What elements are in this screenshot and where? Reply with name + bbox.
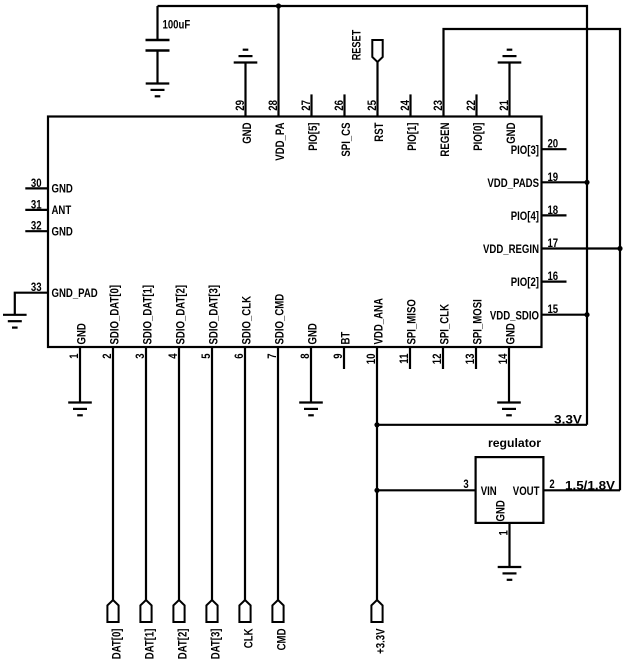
pin 32 stub xyxy=(25,230,48,232)
svg-text:22: 22 xyxy=(464,100,478,111)
svg-text:+3.3V: +3.3V xyxy=(374,629,388,654)
connector DAT[0] xyxy=(107,600,118,622)
ground (C1) xyxy=(146,84,170,97)
svg-text:1.5/1.8V: 1.5/1.8V xyxy=(565,478,615,492)
connector DAT[3] xyxy=(206,600,217,622)
junction: pin 17 / 1.5-1.8V riser xyxy=(617,246,622,251)
junction: VDD_ANA / 3.3V rail xyxy=(374,422,379,427)
svg-text:9: 9 xyxy=(331,353,345,359)
wire: pin 8 down to ground xyxy=(310,347,312,403)
svg-text:SDIO_DAT[1]: SDIO_DAT[1] xyxy=(140,285,154,345)
wire: REGEN pin 23 up and across to regulator VOUT rail xyxy=(444,29,621,490)
wire: pin 1 down to ground xyxy=(79,347,81,403)
svg-text:VDD_REGIN: VDD_REGIN xyxy=(483,242,539,256)
wire: pin 33 GND_PAD to ground xyxy=(15,293,48,315)
svg-text:BT: BT xyxy=(338,331,352,344)
junction: pin 19 / 3.3V riser xyxy=(584,180,589,185)
wire: pin 7 down to CMD connector xyxy=(277,347,279,600)
svg-text:DAT[3]: DAT[3] xyxy=(209,628,223,659)
svg-text:RST: RST xyxy=(372,122,386,142)
wire: pin 21 up to ground xyxy=(508,63,510,117)
ground (GND_PAD) xyxy=(3,315,27,328)
pin 19 wire xyxy=(542,181,588,183)
pin 26 stub xyxy=(343,94,345,116)
svg-text:32: 32 xyxy=(31,219,42,233)
pin 12 stub xyxy=(442,347,444,369)
svg-text:3: 3 xyxy=(133,353,147,359)
wire: C1 bottom lead xyxy=(156,51,158,84)
svg-text:26: 26 xyxy=(332,100,346,111)
wire: top 3.3V rail from C1 to right side, down to 3.3V node xyxy=(158,6,588,425)
svg-text:19: 19 xyxy=(547,170,558,184)
svg-text:28: 28 xyxy=(266,100,280,111)
regulator U2 body xyxy=(476,457,544,523)
connector DAT[2] xyxy=(173,600,184,622)
svg-text:21: 21 xyxy=(497,100,511,111)
svg-text:PIO[2]: PIO[2] xyxy=(511,275,539,289)
pin 15 wire xyxy=(542,314,588,316)
svg-text:8: 8 xyxy=(298,353,312,359)
wire: regulator GND (pin 1) down to ground xyxy=(508,523,510,567)
wire: pin 25 RST up to RESET connector xyxy=(376,62,378,117)
svg-text:SPI_MOSI: SPI_MOSI xyxy=(470,299,484,344)
pin 16 stub xyxy=(542,281,567,283)
connector RESET xyxy=(372,40,382,62)
svg-text:6: 6 xyxy=(232,353,246,359)
svg-text:7: 7 xyxy=(265,353,279,359)
svg-text:SDIO_CMD: SDIO_CMD xyxy=(272,294,286,345)
svg-text:PIO[5]: PIO[5] xyxy=(306,123,320,151)
svg-text:RESET: RESET xyxy=(350,29,364,60)
svg-text:GND: GND xyxy=(74,323,88,345)
connector CLK xyxy=(239,600,250,622)
svg-text:CMD: CMD xyxy=(275,628,289,650)
svg-text:VIN: VIN xyxy=(481,484,497,498)
svg-text:25: 25 xyxy=(365,100,379,111)
wire: pin 5 down to DAT[3] connector xyxy=(211,347,213,600)
svg-text:15: 15 xyxy=(547,302,558,316)
svg-text:REGEN: REGEN xyxy=(438,123,452,157)
ground (pin 29, inverted) xyxy=(234,50,258,63)
svg-text:VDD_PADS: VDD_PADS xyxy=(487,176,539,190)
pin 18 stub xyxy=(542,214,567,216)
svg-text:VDD_SDIO: VDD_SDIO xyxy=(490,308,539,322)
svg-text:PIO[1]: PIO[1] xyxy=(405,123,419,151)
junction: pin 15 / 3.3V riser xyxy=(584,312,589,317)
svg-text:30: 30 xyxy=(31,176,42,190)
svg-text:VDD_ANA: VDD_ANA xyxy=(371,298,385,345)
svg-text:GND_PAD: GND_PAD xyxy=(52,286,98,300)
pin 17 wire xyxy=(542,247,621,249)
svg-text:3.3V: 3.3V xyxy=(554,412,582,426)
svg-text:4: 4 xyxy=(166,353,180,359)
wire: pin 28 VDD_PA up to 3.3V rail xyxy=(277,6,279,117)
connector CMD xyxy=(272,600,283,622)
svg-text:20: 20 xyxy=(547,137,558,151)
svg-text:GND: GND xyxy=(52,225,74,239)
pin 11 stub xyxy=(409,347,411,369)
wire: regulator VOUT (pin 2) to 1.5/1.8V riser xyxy=(543,489,620,491)
junction: VDD_ANA / VIN wire xyxy=(374,488,379,493)
svg-text:11: 11 xyxy=(397,353,411,363)
wire: pin 2 down to DAT[0] connector xyxy=(112,347,114,600)
pin 22 stub xyxy=(475,94,477,116)
wire: pin 3 down to DAT[1] connector xyxy=(145,347,147,600)
svg-text:2: 2 xyxy=(100,353,114,359)
svg-text:PIO[0]: PIO[0] xyxy=(471,123,485,151)
svg-text:13: 13 xyxy=(463,353,477,364)
svg-text:ANT: ANT xyxy=(52,203,72,217)
svg-text:18: 18 xyxy=(547,203,558,217)
ground (pin 21, inverted) xyxy=(498,50,522,63)
pin 9 stub xyxy=(343,347,345,369)
svg-text:17: 17 xyxy=(547,236,558,250)
svg-text:PIO[3]: PIO[3] xyxy=(511,143,539,157)
ground (regulator) xyxy=(498,567,522,580)
svg-text:SPI_CLK: SPI_CLK xyxy=(437,304,451,345)
svg-text:27: 27 xyxy=(299,100,313,111)
wire: pin 6 down to CLK connector xyxy=(244,347,246,600)
svg-text:GND: GND xyxy=(504,122,518,144)
svg-text:PIO[4]: PIO[4] xyxy=(511,209,539,223)
pin 27 stub xyxy=(310,94,312,116)
svg-text:SDIO_CLK: SDIO_CLK xyxy=(239,296,253,345)
svg-text:DAT[1]: DAT[1] xyxy=(143,628,157,659)
svg-text:CLK: CLK xyxy=(242,628,256,648)
pin 13 stub xyxy=(475,347,477,369)
svg-text:DAT[2]: DAT[2] xyxy=(176,628,190,659)
svg-text:SDIO_DAT[0]: SDIO_DAT[0] xyxy=(107,285,121,345)
svg-text:GND: GND xyxy=(240,122,254,144)
svg-text:SDIO_DAT[2]: SDIO_DAT[2] xyxy=(173,285,187,345)
svg-text:VOUT: VOUT xyxy=(513,484,540,498)
connector DAT[1] xyxy=(140,600,151,622)
svg-text:24: 24 xyxy=(398,100,412,111)
wire: 3.3V horizontal rail xyxy=(377,424,587,426)
svg-text:GND: GND xyxy=(494,500,508,522)
svg-text:16: 16 xyxy=(547,269,558,283)
svg-text:10: 10 xyxy=(364,353,378,364)
svg-text:GND: GND xyxy=(305,323,319,345)
svg-text:14: 14 xyxy=(496,353,510,364)
pin 30 stub xyxy=(25,187,48,189)
svg-text:2: 2 xyxy=(549,477,555,491)
connector +3.3V xyxy=(371,600,382,622)
svg-text:5: 5 xyxy=(199,353,213,359)
ground (pin 1) xyxy=(68,403,92,416)
svg-text:1: 1 xyxy=(67,353,81,359)
svg-text:29: 29 xyxy=(233,100,247,111)
pin 24 stub xyxy=(409,94,411,116)
wire: pin 29 up to ground xyxy=(244,63,246,117)
svg-text:DAT[0]: DAT[0] xyxy=(110,628,124,659)
svg-text:VDD_PA: VDD_PA xyxy=(273,122,287,160)
wire: pin 10 VDD_ANA down to +3.3V connector xyxy=(376,347,378,600)
svg-text:SPI_MISO: SPI_MISO xyxy=(404,299,418,344)
svg-text:3: 3 xyxy=(463,477,469,491)
pin 31 stub xyxy=(25,209,48,211)
ground (pin 8) xyxy=(299,403,323,416)
svg-text:12: 12 xyxy=(430,353,444,364)
wire: pin 14 down to ground xyxy=(508,347,510,403)
wire: C1 top lead xyxy=(156,6,158,40)
junction: pin28/rail xyxy=(276,3,281,8)
svg-text:23: 23 xyxy=(431,100,445,111)
svg-text:SDIO_DAT[3]: SDIO_DAT[3] xyxy=(206,285,220,345)
svg-text:regulator: regulator xyxy=(488,436,541,450)
wire: pin 4 down to DAT[2] connector xyxy=(178,347,180,600)
svg-text:100uF: 100uF xyxy=(163,18,191,32)
svg-text:SPI_CS: SPI_CS xyxy=(339,123,353,157)
svg-text:GND: GND xyxy=(52,182,74,196)
pin 20 stub xyxy=(542,148,567,150)
svg-text:1: 1 xyxy=(496,530,510,536)
svg-text:GND: GND xyxy=(503,323,517,345)
svg-text:31: 31 xyxy=(31,197,42,211)
capacitor C1 100uF xyxy=(146,40,170,51)
ground (pin 14) xyxy=(497,403,521,416)
IC U1 body xyxy=(48,117,542,348)
wire: VDD_ANA to regulator VIN (pin 3) xyxy=(377,489,476,491)
